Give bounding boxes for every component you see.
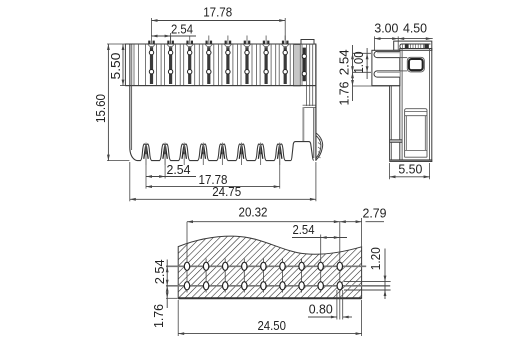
svg-text:2.54: 2.54 [336,49,351,75]
svg-text:2.54: 2.54 [171,22,193,37]
svg-text:15.60: 15.60 [93,94,108,123]
svg-text:2.79: 2.79 [363,206,387,221]
svg-text:24.75: 24.75 [212,184,241,199]
svg-text:3.00: 3.00 [374,21,398,36]
svg-text:5.50: 5.50 [108,53,123,80]
svg-text:0.80: 0.80 [309,302,333,317]
svg-text:4.50: 4.50 [403,21,427,36]
svg-text:1.76: 1.76 [151,304,166,328]
svg-text:17.78: 17.78 [203,5,232,20]
svg-text:2.54: 2.54 [293,222,315,237]
svg-text:1.76: 1.76 [336,82,351,106]
svg-text:5.50: 5.50 [398,162,422,177]
svg-text:1.20: 1.20 [368,247,383,270]
svg-text:2.54: 2.54 [152,259,167,284]
svg-text:20.32: 20.32 [239,205,268,220]
svg-text:1.00: 1.00 [351,52,366,74]
svg-text:24.50: 24.50 [257,318,286,333]
svg-text:2.54: 2.54 [167,162,191,177]
